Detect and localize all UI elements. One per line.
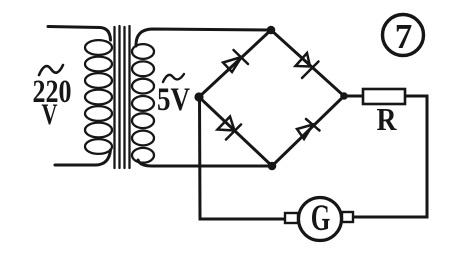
- svg-text:7: 7: [395, 17, 413, 56]
- svg-text:5V: 5V: [157, 82, 190, 118]
- svg-text:R: R: [377, 101, 398, 137]
- svg-text:V: V: [42, 98, 58, 131]
- svg-text:G: G: [311, 197, 331, 238]
